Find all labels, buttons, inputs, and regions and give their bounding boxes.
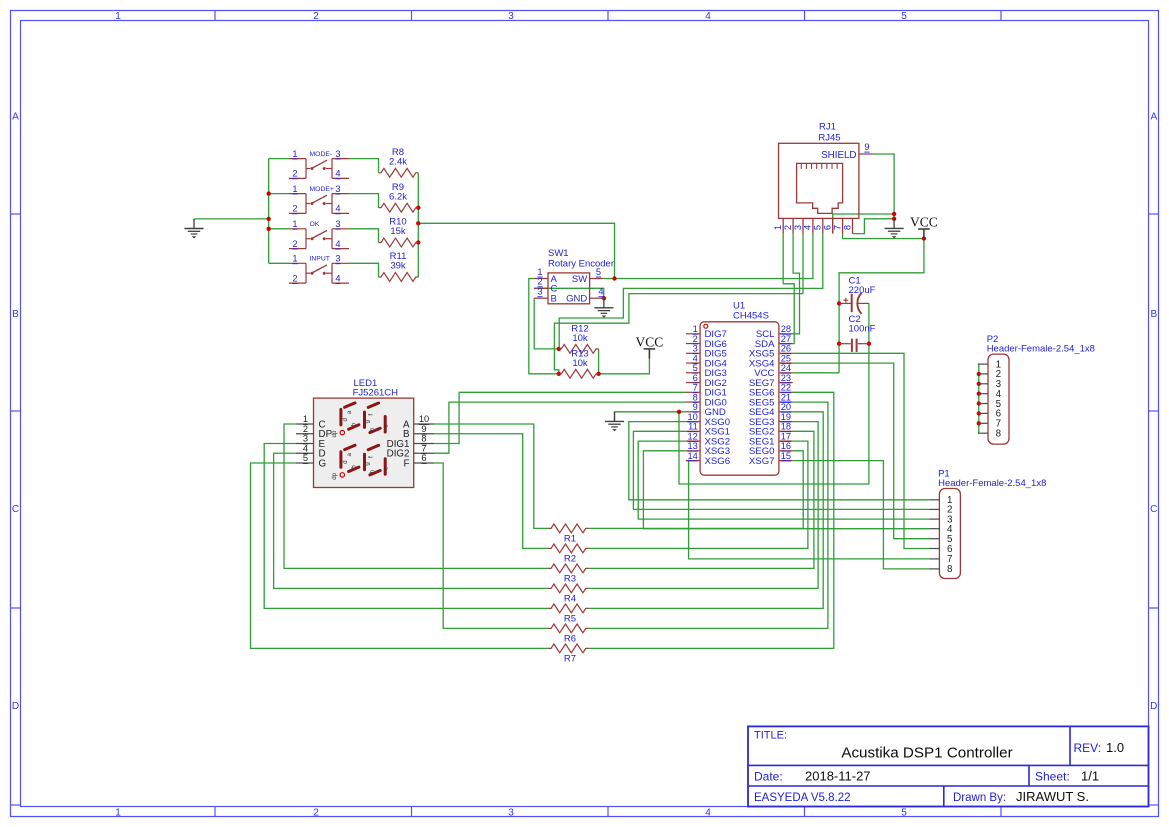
svg-text:Rotary Encoder: Rotary Encoder	[548, 258, 614, 269]
svg-text:16: 16	[781, 441, 791, 451]
svg-text:5: 5	[901, 11, 907, 22]
svg-text:23: 23	[781, 373, 791, 383]
pushbutton OK	[289, 219, 349, 249]
svg-text:R7: R7	[564, 654, 576, 665]
svg-text:100nF: 100nF	[849, 323, 876, 334]
junction: resistor bus R9	[416, 206, 420, 210]
svg-text:1: 1	[303, 414, 308, 424]
junction: U1 GND node	[677, 410, 681, 414]
svg-text:15k: 15k	[390, 226, 406, 237]
svg-text:REV:: REV:	[1074, 741, 1102, 755]
svg-text:13: 13	[687, 441, 697, 451]
wire: U1 XSG5 to P1 pin6	[793, 353, 930, 548]
svg-text:5: 5	[813, 225, 823, 230]
junction: R13 left node	[557, 372, 561, 376]
wire: U1 SEG0 to R1	[588, 451, 803, 529]
svg-text:a: a	[346, 452, 353, 456]
display LED1 FJ5261CH	[296, 378, 434, 488]
ground (button bus)	[193, 219, 195, 229]
wire: U1 XSG6 to P1 pin7	[686, 461, 929, 559]
wire: button bus left vertical	[268, 159, 270, 264]
wire: U1 SEG5 to R6	[588, 402, 828, 628]
svg-text:4: 4	[693, 353, 698, 363]
svg-text:D: D	[12, 701, 19, 712]
svg-text:MODE-: MODE-	[310, 151, 333, 158]
junction: resistor bus key line	[416, 221, 420, 225]
title block	[748, 726, 1149, 806]
svg-text:1: 1	[773, 225, 783, 230]
ground (SW1 pin4)	[603, 298, 605, 308]
svg-text:1: 1	[292, 254, 297, 264]
svg-text:5: 5	[693, 363, 698, 373]
svg-text:7: 7	[832, 225, 842, 230]
svg-text:f: f	[367, 414, 374, 416]
junction: P2 pin5 node	[977, 401, 981, 405]
svg-text:10: 10	[687, 412, 697, 422]
wire: RJ45 shield pin9 down	[874, 154, 894, 219]
pushbutton MODE-	[289, 149, 349, 179]
svg-text:3: 3	[303, 434, 308, 444]
svg-text:2: 2	[303, 424, 308, 434]
svg-text:VCC: VCC	[636, 334, 664, 349]
wire: VCC to C1/C2 left and U1 VCC	[839, 239, 924, 373]
svg-text:25: 25	[781, 353, 791, 363]
pushbutton MODE+	[289, 184, 349, 214]
wire: U1 SEG2 to R3	[588, 431, 814, 568]
svg-text:6.2k: 6.2k	[389, 191, 407, 202]
svg-text:C: C	[1150, 504, 1157, 515]
junction: P2 pin2 node	[977, 372, 981, 376]
wire: LED1 F to R6	[434, 463, 549, 628]
svg-text:b: b	[350, 465, 357, 469]
svg-text:6: 6	[823, 225, 833, 230]
svg-text:220uF: 220uF	[849, 285, 876, 296]
wire: SW1 pin B to R12	[534, 298, 559, 349]
svg-text:EASYEDA V5.8.22: EASYEDA V5.8.22	[754, 792, 851, 804]
svg-text:Drawn By:: Drawn By:	[953, 792, 1006, 804]
wire: U1 SEG6 to R7	[588, 392, 834, 648]
svg-text:CH454S: CH454S	[733, 310, 769, 321]
svg-text:26: 26	[781, 344, 791, 354]
svg-text:2: 2	[292, 239, 297, 249]
svg-text:C: C	[12, 504, 19, 515]
svg-text:R5: R5	[564, 614, 576, 625]
wire: key line to SW1 pin5 / RJ45 pin4	[418, 223, 614, 278]
svg-text:XSG7: XSG7	[749, 456, 775, 467]
svg-text:2: 2	[783, 225, 793, 230]
resistor R2	[549, 544, 589, 565]
svg-text:SHIELD: SHIELD	[821, 150, 856, 161]
svg-text:3: 3	[335, 254, 340, 264]
svg-text:39k: 39k	[390, 261, 406, 272]
svg-text:1: 1	[115, 11, 121, 22]
svg-text:dp: dp	[331, 430, 338, 437]
svg-text:F: F	[404, 458, 410, 469]
svg-text:MODE+: MODE+	[310, 186, 334, 193]
wire: U1 XSG1 to P1 pin2	[633, 431, 929, 509]
junction: C2 left node	[837, 342, 841, 346]
svg-text:20: 20	[781, 402, 791, 412]
svg-text:8: 8	[947, 564, 953, 575]
svg-text:2: 2	[292, 169, 297, 179]
svg-text:A: A	[12, 112, 19, 123]
rotary encoder SW1	[534, 248, 614, 304]
wire: RJ45 pin6 to shield junction	[833, 214, 894, 234]
svg-text:FJ5261CH: FJ5261CH	[353, 388, 399, 399]
svg-text:4: 4	[803, 225, 813, 230]
wire: resistor bus right vertical	[417, 173, 419, 277]
svg-text:OK: OK	[310, 221, 320, 228]
wire: button pin3 to resistor	[349, 263, 379, 277]
wire: RJ45 pin2 to U1 SCL	[793, 234, 800, 334]
svg-text:3: 3	[335, 149, 340, 159]
svg-text:17: 17	[781, 431, 791, 441]
svg-text:10: 10	[419, 414, 429, 424]
junction: R12 left node	[557, 347, 561, 351]
wire: RJ45 pin8 to shield junction	[853, 219, 895, 234]
resistor R7	[549, 644, 589, 665]
capacitor C1 220uF	[839, 275, 876, 314]
svg-text:Date:: Date:	[754, 770, 783, 784]
svg-text:8: 8	[693, 392, 698, 402]
svg-text:b: b	[350, 422, 357, 426]
svg-text:R3: R3	[564, 574, 576, 585]
svg-text:3: 3	[508, 11, 514, 22]
svg-text:1: 1	[115, 807, 121, 818]
junction: R13 right node	[596, 372, 600, 376]
svg-text:7: 7	[421, 443, 426, 453]
wire: LED1 B to R2	[434, 434, 549, 549]
wire: ground to button bus	[194, 218, 269, 220]
svg-text:4: 4	[335, 239, 340, 249]
svg-text:4: 4	[598, 287, 603, 297]
svg-text:Header-Female-2.54_1x8: Header-Female-2.54_1x8	[938, 478, 1046, 489]
wire: R13 right to VCC	[599, 358, 650, 373]
svg-text:7: 7	[693, 383, 698, 393]
junction: RJ45 shield node lower	[892, 217, 896, 221]
svg-text:h: h	[369, 469, 376, 473]
svg-text:8: 8	[842, 225, 852, 230]
svg-text:XSG6: XSG6	[705, 456, 731, 467]
svg-text:D: D	[1150, 701, 1157, 712]
svg-text:RJ1: RJ1	[819, 122, 836, 133]
wire: LED1 A to R1	[434, 424, 549, 528]
svg-text:3: 3	[508, 807, 514, 818]
svg-text:4: 4	[705, 807, 711, 818]
svg-text:g: g	[364, 462, 371, 466]
svg-text:2.4k: 2.4k	[389, 157, 407, 168]
wire: LED1 C to R3	[284, 424, 549, 568]
junction: C2 right node	[867, 342, 871, 346]
wire: bus to button pin1	[269, 228, 289, 230]
wire: U1 XSG7 to P1 pin8	[793, 461, 930, 569]
svg-text:a: a	[346, 410, 353, 414]
junction: resistor bus R10	[416, 240, 420, 244]
ground (U1 GND)	[614, 412, 616, 422]
junction: SW1 GND node	[602, 296, 606, 300]
svg-text:3: 3	[537, 287, 542, 297]
wire: RJ45 pin5 to R12	[559, 234, 823, 349]
svg-text:9: 9	[421, 424, 426, 434]
svg-text:h: h	[369, 427, 376, 431]
svg-text:4: 4	[335, 204, 340, 214]
resistor R13	[559, 349, 599, 379]
svg-text:R2: R2	[564, 554, 576, 565]
junction: button bus OK	[267, 227, 271, 231]
svg-text:21: 21	[781, 392, 791, 402]
svg-text:B: B	[12, 309, 19, 320]
junction: P2 pin3 node	[977, 382, 981, 386]
svg-text:2: 2	[292, 204, 297, 214]
wire: U1 SEG1 to R2	[588, 441, 808, 548]
svg-text:9: 9	[693, 402, 698, 412]
svg-text:3: 3	[335, 184, 340, 194]
resistor R8	[379, 147, 419, 177]
junction: P2 pin6 node	[977, 411, 981, 415]
svg-text:B: B	[1150, 309, 1157, 320]
wire: LED1 G to R7	[251, 463, 549, 648]
svg-text:10k: 10k	[572, 333, 588, 344]
wire: LED1 D to R4	[274, 453, 549, 588]
svg-text:18: 18	[781, 422, 791, 432]
wire: RJ45 pin1 to U1 SDA	[783, 234, 794, 344]
wire: R12 right to R13 right	[598, 349, 600, 374]
wire: U1 SEG4 to R5	[588, 412, 823, 609]
junction: P2 pin7 node	[977, 421, 981, 425]
svg-text:10k: 10k	[572, 358, 588, 369]
ground (RJ45 shield)	[893, 219, 895, 229]
svg-text:15: 15	[781, 451, 791, 461]
resistor R11	[379, 251, 419, 281]
svg-text:2018-11-27: 2018-11-27	[805, 769, 871, 784]
wire: P2 bus vertical	[978, 364, 980, 433]
wire: C1 right lead down	[679, 303, 869, 484]
wire: bus to button pin1	[269, 158, 289, 160]
svg-text:B: B	[551, 294, 557, 305]
wire: bus to button pin1	[269, 262, 289, 264]
resistor R6	[549, 624, 589, 645]
svg-text:e: e	[383, 424, 390, 428]
svg-text:1: 1	[693, 324, 698, 334]
svg-text:11: 11	[688, 422, 698, 432]
svg-text:Acustika DSP1 Controller: Acustika DSP1 Controller	[841, 745, 1012, 762]
svg-text:19: 19	[781, 412, 791, 422]
wire: button pin3 to resistor	[349, 159, 379, 173]
svg-text:2: 2	[292, 273, 297, 283]
resistor R4	[549, 584, 589, 605]
svg-text:9: 9	[864, 142, 869, 152]
svg-text:JIRAWUT S.: JIRAWUT S.	[1016, 789, 1089, 804]
wire: U1 DIG0 to LED1 DIG2	[434, 402, 686, 453]
svg-text:12: 12	[687, 431, 697, 441]
wire: U1 XSG2 to P1 pin3	[638, 441, 929, 519]
svg-text:6: 6	[947, 544, 953, 555]
wire: RJ45 pin7 to VCC	[843, 234, 924, 239]
junction: SW1 pin5 node	[612, 276, 616, 280]
resistor R9	[379, 182, 419, 212]
wire: SW1 pin A to R13	[529, 279, 559, 374]
svg-text:d: d	[342, 460, 349, 464]
svg-text:dp: dp	[331, 472, 338, 479]
wire: SW1 SW line to RJ45 pin4	[615, 234, 813, 279]
svg-text:Header-Female-2.54_1x8: Header-Female-2.54_1x8	[987, 344, 1095, 355]
wire: U1 XSG4 to P1 pin5	[793, 363, 930, 539]
svg-text:1/1: 1/1	[1081, 769, 1099, 784]
wire: U1 pin24 VCC	[793, 372, 839, 374]
svg-text:GND: GND	[566, 294, 587, 305]
svg-text:27: 27	[781, 334, 791, 344]
wire: U1 SEG3 to R4	[588, 422, 818, 589]
svg-text:2: 2	[537, 277, 542, 287]
IC U1 CH454S	[686, 301, 793, 476]
svg-text:RJ45: RJ45	[818, 133, 840, 144]
svg-text:4: 4	[335, 273, 340, 283]
connector P1 Header-Female-2.54_1x8	[929, 468, 1046, 578]
svg-text:2: 2	[313, 11, 319, 22]
svg-text:SW: SW	[572, 274, 587, 285]
svg-text:28: 28	[781, 324, 791, 334]
svg-text:d: d	[342, 418, 349, 422]
svg-text:22: 22	[781, 383, 791, 393]
wire: button pin3 to resistor	[349, 194, 379, 208]
svg-text:14: 14	[687, 451, 697, 461]
svg-text:R1: R1	[564, 534, 576, 545]
connector P2 Header-Female-2.54_1x8	[978, 334, 1095, 444]
wire: button pin3 to resistor	[349, 229, 379, 243]
svg-text:4: 4	[705, 11, 711, 22]
svg-text:3: 3	[693, 344, 698, 354]
wire: LED1 E to R5	[264, 444, 548, 609]
resistor R10	[379, 217, 419, 247]
svg-text:INPUT: INPUT	[310, 256, 330, 263]
svg-text:1.0: 1.0	[1106, 740, 1124, 755]
svg-text:5: 5	[901, 807, 907, 818]
svg-text:5: 5	[303, 453, 308, 463]
svg-text:e: e	[383, 466, 390, 470]
svg-text:1: 1	[537, 267, 542, 277]
wire: SW1 pin5 stub to junction	[604, 278, 615, 280]
wire: SW1 pin C to ground junction	[534, 288, 604, 298]
svg-text:R6: R6	[564, 634, 576, 645]
svg-text:G: G	[319, 458, 327, 469]
svg-text:1: 1	[292, 149, 297, 159]
wire: U1 XSG0 to P1 pin1	[629, 422, 930, 500]
junction: button bus MODE+	[267, 191, 271, 195]
svg-text:VCC: VCC	[910, 214, 938, 229]
svg-text:1: 1	[292, 184, 297, 194]
svg-text:g: g	[364, 419, 371, 423]
wire: RJ45 pin3 to R13	[554, 234, 803, 374]
svg-text:f: f	[367, 456, 374, 458]
svg-text:6: 6	[421, 453, 426, 463]
resistor R12	[559, 324, 599, 354]
junction: VCC node RJ45	[922, 236, 926, 240]
svg-text:3: 3	[335, 219, 340, 229]
connector RJ1 RJ45	[773, 122, 874, 234]
svg-text:3: 3	[793, 225, 803, 230]
svg-text:8: 8	[421, 434, 426, 444]
junction: C1 left node	[837, 301, 841, 305]
svg-text:8: 8	[996, 429, 1002, 440]
junction: P2 pin4 node	[977, 392, 981, 396]
junction: button bus ground	[267, 217, 271, 221]
wire: U1 XSG3 to P1 pin4	[643, 451, 929, 529]
svg-text:24: 24	[781, 363, 791, 373]
capacitor C2 100nF	[839, 314, 876, 352]
pushbutton INPUT	[289, 254, 349, 284]
svg-text:2: 2	[693, 334, 698, 344]
junction: RJ45 shield node upper	[892, 212, 896, 216]
wire: U1 pin9 GND left to ground	[615, 412, 686, 422]
svg-text:4: 4	[303, 443, 308, 453]
svg-text:6: 6	[693, 373, 698, 383]
svg-text:TITLE:: TITLE:	[754, 730, 787, 742]
resistor R1	[549, 524, 589, 545]
resistor R3	[549, 564, 589, 585]
wire: U1 DIG1 to LED1 DIG1	[434, 392, 686, 443]
svg-text:4: 4	[335, 169, 340, 179]
svg-text:1: 1	[292, 219, 297, 229]
svg-text:R4: R4	[564, 594, 576, 605]
wire: bus to button pin1	[269, 193, 289, 195]
svg-text:Sheet:: Sheet:	[1035, 770, 1070, 784]
svg-text:2: 2	[313, 807, 319, 818]
resistor R5	[549, 604, 589, 625]
svg-text:A: A	[1150, 112, 1157, 123]
